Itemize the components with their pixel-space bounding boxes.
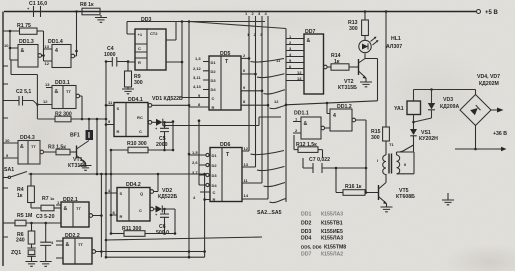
resistor R8 <box>80 2 100 15</box>
switch block SA2..SA5 enclosure <box>189 22 286 203</box>
wire bottom rail <box>106 256 205 258</box>
capacitor C6 <box>155 209 169 236</box>
wire vertical net x189 <box>188 22 190 258</box>
crystal ZQ1 <box>11 248 38 266</box>
wire DD4.1 output to DD5 R pin <box>189 106 209 108</box>
diode VD1 <box>152 96 183 151</box>
wire DD3 to bus <box>127 22 265 98</box>
diode VD3 <box>414 90 460 123</box>
ground after R8 <box>95 15 107 22</box>
diode VD2 <box>154 188 178 235</box>
resistor R14 <box>327 53 358 70</box>
switch wipers DD6 <box>251 151 286 203</box>
wire bus verticals <box>249 16 268 199</box>
resistor R6 <box>16 223 35 248</box>
resistor R16 <box>335 167 379 196</box>
transistor VT1 <box>68 141 92 171</box>
terminal +5V <box>477 10 481 14</box>
resistor R4 <box>17 174 34 208</box>
trigger DD4.1 <box>105 97 189 137</box>
trigger DD4.2 <box>105 174 158 221</box>
parts list <box>301 212 346 258</box>
switch SA1 <box>3 167 206 179</box>
wire DD1.3 feedback net <box>11 60 37 119</box>
bridge VD4-VD7 <box>455 74 507 151</box>
wire DD5/DD6 inter net <box>165 117 282 126</box>
LED HL1 <box>359 36 402 53</box>
resistor R9 <box>122 71 143 94</box>
gate DD1.4 <box>42 10 78 67</box>
trigger DD2.2 <box>51 233 206 264</box>
wire +36V top feed <box>414 89 476 91</box>
resistor R5 <box>3 213 61 226</box>
trigger DD4.3 <box>3 135 44 164</box>
resistor R11 <box>111 226 175 236</box>
switch wipers DD5 <box>251 59 286 109</box>
thyristor VS1 <box>400 122 439 152</box>
resistor R2 <box>37 112 107 176</box>
scan noise overlay <box>0 0 1 1</box>
wire long net y240 <box>106 237 262 240</box>
resistor R10 <box>111 141 173 153</box>
wire VT2 region to long net <box>286 101 378 105</box>
NAND DD7 <box>286 29 327 94</box>
resistor R3 <box>44 145 77 155</box>
trigger DD6 <box>189 119 242 202</box>
wire long verticals mid <box>106 62 111 258</box>
transformer T1 <box>377 152 414 175</box>
buzzer BF1 <box>70 118 93 140</box>
DD6 output stubs <box>242 151 268 199</box>
ground near VT5 right <box>447 193 449 200</box>
capacitor C5 <box>155 122 169 151</box>
resistor R15 <box>371 10 394 155</box>
capacitor C1 <box>27 1 47 17</box>
wire left bus <box>2 12 4 267</box>
gate DD1.2 <box>327 103 366 168</box>
trigger DD5 <box>193 51 241 110</box>
resistor R12 <box>294 135 323 158</box>
resistor R13 <box>348 10 368 40</box>
trigger DD2.1 <box>56 174 103 257</box>
counter DD3 <box>127 17 182 71</box>
wire DD6 R to bottom rail <box>205 174 210 257</box>
gate DD1.3 <box>4 31 42 67</box>
capacitor C7 <box>303 157 367 173</box>
capacitor C3 <box>40 223 52 266</box>
capacitor C4 <box>104 46 128 67</box>
DD5 output stubs <box>241 58 268 105</box>
transistor VT5 <box>379 174 416 212</box>
resistor R7 <box>31 196 61 211</box>
relay YA1 <box>394 90 421 124</box>
transistor VT2 <box>338 54 378 101</box>
trigger DD3.1 <box>37 80 83 120</box>
gate DD1.1 <box>293 111 330 140</box>
wire +5V rail <box>4 11 476 13</box>
capacitor C2 <box>3 89 37 106</box>
resistor R1 <box>3 23 44 56</box>
